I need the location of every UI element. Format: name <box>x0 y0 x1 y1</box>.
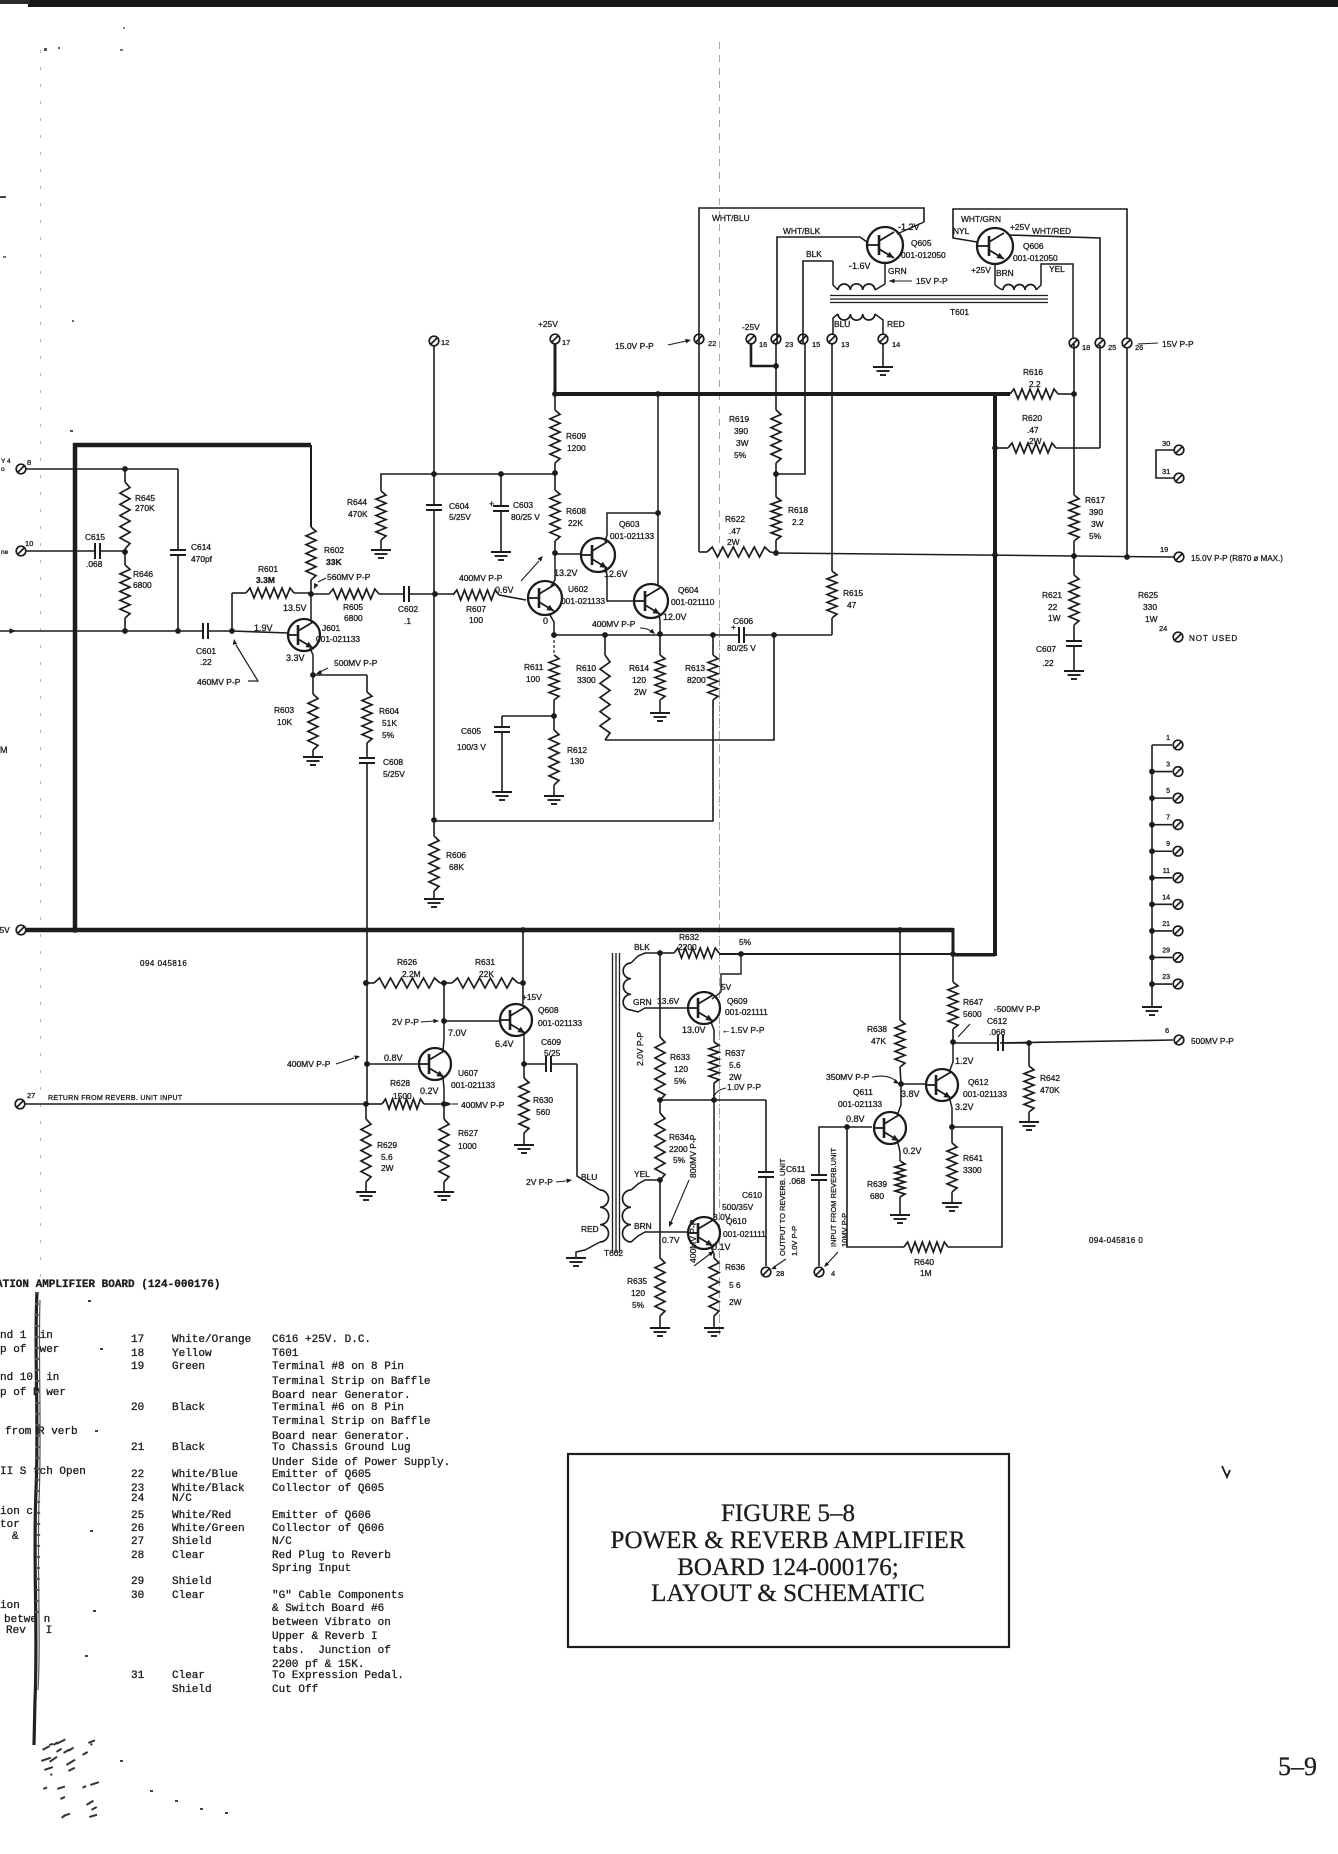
svg-text:001-021133: 001-021133 <box>451 1080 495 1090</box>
svg-text:3300: 3300 <box>963 1165 982 1175</box>
node base tap <box>364 1061 370 1067</box>
svg-text:30: 30 <box>1162 439 1170 448</box>
svg-text:C606: C606 <box>733 616 753 626</box>
svg-text:Clear: Clear <box>172 1670 205 1682</box>
resistor R605 <box>311 593 329 595</box>
wire Q605 emitter <box>884 263 886 284</box>
wire Q607 emitter <box>443 1078 444 1104</box>
svg-text:Collector of Q605: Collector of Q605 <box>272 1483 384 1495</box>
ground T602 primary <box>566 1257 586 1259</box>
ground C607 <box>1064 670 1084 672</box>
ground R629 <box>356 1191 376 1193</box>
svg-text:5%: 5% <box>1089 531 1102 541</box>
svg-text:R632: R632 <box>679 932 699 942</box>
main lower bus (thick) <box>26 928 953 933</box>
svg-text:R631: R631 <box>475 957 495 967</box>
svg-text:5/25V: 5/25V <box>449 512 471 522</box>
svg-text:1500: 1500 <box>393 1091 412 1101</box>
svg-text:R642: R642 <box>1040 1073 1060 1083</box>
transistor Q611 <box>874 1112 906 1144</box>
wire Q602 emitter <box>550 615 554 635</box>
svg-text:R641: R641 <box>963 1153 983 1163</box>
terminal 13 <box>827 334 837 344</box>
ground R639 <box>890 1214 910 1216</box>
label 400MV P-P arrow (R628) <box>447 1102 453 1107</box>
svg-text:14: 14 <box>892 340 900 349</box>
svg-text:.1: .1 <box>404 616 411 626</box>
svg-text:R605: R605 <box>343 602 363 612</box>
resistor R627 <box>443 1104 445 1119</box>
node R645 top <box>122 466 128 472</box>
svg-text:5.6: 5.6 <box>729 1060 741 1070</box>
svg-text:Rev I: Rev I <box>6 1625 52 1637</box>
ground R606 <box>424 898 444 900</box>
svg-text:White/Blue: White/Blue <box>172 1469 238 1481</box>
svg-text:22: 22 <box>1048 602 1058 612</box>
node R628 right/Q607 emitter <box>441 1101 447 1107</box>
svg-text:C611: C611 <box>786 1164 806 1174</box>
svg-text:Q609: Q609 <box>727 996 748 1006</box>
svg-text:5%: 5% <box>674 1076 687 1086</box>
wire Q606 emitter <box>994 264 996 285</box>
capacitor C605 <box>501 716 503 727</box>
resistor R616 (in +25V rail) <box>1010 389 1058 399</box>
svg-text:U602: U602 <box>568 584 588 594</box>
svg-text:R603: R603 <box>274 705 294 715</box>
svg-text:White/Red: White/Red <box>172 1510 231 1522</box>
svg-text:2200: 2200 <box>678 942 697 952</box>
node R609/C603 wire <box>552 470 558 476</box>
svg-text:13.2V: 13.2V <box>554 568 578 578</box>
svg-text:C602: C602 <box>398 604 418 614</box>
svg-text:120: 120 <box>674 1064 688 1074</box>
transistor Q602 <box>528 581 562 615</box>
node R616/18 <box>1071 391 1077 397</box>
svg-text:120: 120 <box>631 1288 645 1298</box>
svg-text:Shield: Shield <box>172 1536 212 1548</box>
terminal 6 output wire <box>1000 1040 1173 1043</box>
svg-text:11: 11 <box>1163 868 1170 875</box>
resistor R646 <box>120 565 130 618</box>
terminal 27 input wire <box>15 1099 25 1109</box>
svg-text:3.3V: 3.3V <box>286 653 305 663</box>
resistor R608 <box>554 473 556 490</box>
wire node up to R601 <box>231 593 233 631</box>
svg-text:T601: T601 <box>272 1348 299 1360</box>
svg-text:094 045816: 094 045816 <box>140 959 187 968</box>
svg-text:100/3 V: 100/3 V <box>457 742 486 752</box>
svg-text:1M: 1M <box>920 1268 932 1278</box>
wire YEL lead <box>631 1180 660 1190</box>
svg-text:C610: C610 <box>742 1190 762 1200</box>
node R613 top <box>710 632 716 638</box>
wire terminal 15 down to R619 node <box>776 344 805 474</box>
T601 primary winding right <box>995 285 1003 290</box>
svg-text:6800: 6800 <box>344 613 363 623</box>
svg-text:C612: C612 <box>987 1016 1007 1026</box>
emitter rail wire <box>554 634 739 636</box>
svg-text:17: 17 <box>562 338 570 347</box>
page fold crease line <box>719 42 721 1335</box>
svg-text:5 6: 5 6 <box>729 1280 741 1290</box>
ground under terminal 14 <box>873 366 893 368</box>
node Q611 base <box>844 1124 850 1130</box>
svg-text:Shield: Shield <box>172 1684 212 1696</box>
resistor R645 <box>120 482 130 549</box>
wire +25V feed (thick) <box>554 344 557 395</box>
svg-text:2V P-P: 2V P-P <box>392 1017 419 1027</box>
node C612/R642 <box>1026 1040 1032 1046</box>
transistor Q605 <box>867 227 903 263</box>
leader to terminal 4 <box>827 1252 838 1264</box>
svg-text:22: 22 <box>131 1469 144 1481</box>
svg-text:C615: C615 <box>85 532 105 542</box>
svg-text:5: 5 <box>1166 788 1170 795</box>
wire Q609 emitter <box>711 1022 714 1042</box>
transistor Q607 <box>419 1048 451 1080</box>
svg-text:nd 1 in: nd 1 in <box>0 1330 53 1342</box>
node output/R617 <box>1071 553 1077 559</box>
wire Q606 base loop to terminal 26 <box>953 209 1127 338</box>
svg-text:500MV P-P: 500MV P-P <box>1191 1036 1234 1046</box>
svg-text:R635: R635 <box>627 1276 647 1286</box>
wire RED lead to ground <box>576 1242 600 1257</box>
svg-text:25: 25 <box>1108 343 1116 352</box>
svg-text:Under Side of Power Supply.: Under Side of Power Supply. <box>272 1457 450 1469</box>
svg-text:21: 21 <box>1162 921 1170 928</box>
svg-text:001-021110: 001-021110 <box>671 597 715 607</box>
wire R613 bottom down-left <box>434 700 713 821</box>
leader to terminal 28 <box>774 1259 786 1267</box>
capacitor C608 <box>359 757 375 759</box>
svg-text:001-012050: 001-012050 <box>1013 253 1058 263</box>
svg-text:Y 4: Y 4 <box>1 458 11 465</box>
ground R636 <box>704 1327 724 1329</box>
ground R635 <box>650 1327 670 1329</box>
svg-text:R627: R627 <box>458 1128 478 1138</box>
capacitor C606 (electrolytic) <box>738 627 740 643</box>
node BLK/R632 <box>657 950 663 956</box>
resistor R631 <box>452 978 518 988</box>
node R633/R634 <box>657 1097 663 1103</box>
svg-text:5.6: 5.6 <box>381 1152 393 1162</box>
svg-text:0.7V: 0.7V <box>662 1235 680 1245</box>
terminal 5 <box>1152 797 1172 799</box>
svg-text:2W: 2W <box>729 1297 742 1307</box>
svg-text:T601: T601 <box>950 307 969 317</box>
svg-text:To Chassis Ground Lug: To Chassis Ground Lug <box>272 1442 411 1454</box>
terminal 12 <box>429 336 439 346</box>
resistor R629 <box>365 1104 367 1119</box>
svg-text:2W: 2W <box>381 1163 394 1173</box>
svg-text:R640: R640 <box>914 1257 934 1267</box>
wire Q606 collector WHT/RED to terminal 25 <box>1009 235 1100 338</box>
svg-text:12.0V: 12.0V <box>663 612 687 622</box>
svg-text:R633: R633 <box>670 1052 690 1062</box>
resistor R622 <box>699 551 707 553</box>
svg-text:Board near Generator.: Board near Generator. <box>272 1390 411 1402</box>
svg-text:2.0V P-P: 2.0V P-P <box>635 1032 645 1066</box>
svg-text:C601: C601 <box>196 646 216 656</box>
svg-text:R618: R618 <box>788 505 808 515</box>
svg-text:400MV P-P: 400MV P-P <box>688 1219 698 1263</box>
svg-text:BOARD 124-000176;: BOARD 124-000176; <box>677 1554 899 1581</box>
capacitor C615 <box>26 550 95 552</box>
capacitor C602 <box>403 586 405 602</box>
svg-text:R611: R611 <box>524 662 544 672</box>
svg-text:R613: R613 <box>685 663 705 673</box>
wire terminal 22 down to R622 <box>698 344 700 552</box>
wire R610 bottom to C606 right <box>605 635 774 740</box>
svg-text:R609: R609 <box>566 431 586 441</box>
node R645/R646/C615 <box>122 549 128 555</box>
svg-text:23: 23 <box>785 340 793 349</box>
svg-text:400MV P-P: 400MV P-P <box>459 573 503 583</box>
svg-text:.47: .47 <box>729 526 741 536</box>
svg-text:001-021111: 001-021111 <box>725 1007 768 1017</box>
svg-text:Black: Black <box>172 1442 205 1454</box>
svg-text:R620: R620 <box>1022 413 1042 423</box>
svg-text:25: 25 <box>131 1510 144 1522</box>
svg-text:WHT/BLU: WHT/BLU <box>712 213 750 223</box>
wire Q603 base <box>555 553 582 555</box>
svg-text:12: 12 <box>441 338 449 347</box>
svg-text:tabs. Junction of: tabs. Junction of <box>272 1645 391 1657</box>
svg-text:001-021133: 001-021133 <box>561 596 605 606</box>
terminal 8 <box>16 464 26 474</box>
terminal 21 <box>1152 930 1172 932</box>
terminal 3 <box>1152 771 1172 773</box>
node bus/17 <box>552 391 558 397</box>
node Q603 collector/Q604 collector line <box>655 510 661 516</box>
svg-text:LAYOUT & SCHEMATIC: LAYOUT & SCHEMATIC <box>651 1580 925 1607</box>
terminal 15 <box>798 334 808 344</box>
svg-text:3300: 3300 <box>577 675 596 685</box>
svg-text:21: 21 <box>131 1442 145 1454</box>
svg-text:30: 30 <box>131 1590 144 1602</box>
svg-text:Terminal Strip on Baffle: Terminal Strip on Baffle <box>272 1376 430 1388</box>
svg-text:5V: 5V <box>721 982 732 992</box>
svg-text:28: 28 <box>131 1550 144 1562</box>
svg-text:9: 9 <box>1166 841 1170 848</box>
T601 primary winding left <box>833 261 838 290</box>
wire Q607 base <box>367 1063 419 1065</box>
svg-text:2.2: 2.2 <box>1029 379 1041 389</box>
svg-text:Emitter of Q605: Emitter of Q605 <box>272 1469 371 1481</box>
svg-text:1W: 1W <box>1048 613 1061 623</box>
resistor R617 <box>1069 495 1079 541</box>
scan speckles top-left <box>44 48 47 51</box>
svg-text:BRN: BRN <box>634 1221 652 1231</box>
svg-text:10K: 10K <box>277 717 292 727</box>
svg-text:YEL: YEL <box>1049 264 1065 274</box>
svg-text:80/25 V: 80/25 V <box>511 512 540 522</box>
svg-text:560MV P-P: 560MV P-P <box>327 572 371 582</box>
terminal 23 <box>1152 983 1172 985</box>
svg-text:19: 19 <box>1160 545 1168 554</box>
svg-text:WHT/RED: WHT/RED <box>1032 226 1071 236</box>
svg-text:+15V: +15V <box>522 992 542 1002</box>
transistor Q604 <box>634 584 668 618</box>
svg-text:RED: RED <box>887 319 905 329</box>
terminal 19 <box>1174 552 1184 562</box>
transistor Q608 <box>500 1004 532 1036</box>
wire terminal 18 down to R616 node <box>1073 344 1075 394</box>
svg-text:5%: 5% <box>739 937 752 947</box>
ground terminal ladder <box>1142 1006 1162 1008</box>
wire R620 to terminal 25 column <box>1099 345 1101 448</box>
svg-text:27: 27 <box>131 1536 144 1548</box>
svg-text:20: 20 <box>131 1402 144 1414</box>
resistor R604 <box>366 675 368 692</box>
svg-text:POWER & REVERB AMPLIFIER: POWER & REVERB AMPLIFIER <box>611 1527 966 1554</box>
wire R626/R631 node down to Q608 base <box>443 983 445 1021</box>
wire GRN lead to Q609 base <box>631 1008 688 1012</box>
svg-text:R604: R604 <box>379 706 399 716</box>
svg-text:p of wer: p of wer <box>0 1344 59 1356</box>
capacitor C611 <box>819 1127 847 1175</box>
svg-text:24: 24 <box>131 1493 145 1505</box>
resistor R637 <box>709 1042 719 1083</box>
wire terminal 12 down <box>433 346 435 505</box>
ground R614 <box>650 712 670 714</box>
svg-text:001-021111: 001-021111 <box>723 1229 766 1239</box>
resistor R635 <box>659 1180 661 1258</box>
svg-text:8200: 8200 <box>687 675 706 685</box>
wire Q611 emitter <box>898 1143 900 1161</box>
resistor R630 <box>523 1064 525 1078</box>
ground R630 <box>514 1144 534 1146</box>
terminal 9 <box>1152 850 1172 852</box>
capacitor C604 <box>426 504 442 506</box>
svg-text:17: 17 <box>131 1334 144 1346</box>
svg-text:4: 4 <box>831 1269 835 1278</box>
svg-text:0: 0 <box>543 616 548 626</box>
svg-text:Terminal #6 on 8 Pin: Terminal #6 on 8 Pin <box>272 1402 404 1414</box>
svg-text:R617: R617 <box>1085 495 1105 505</box>
svg-text:T602: T602 <box>604 1248 623 1258</box>
svg-text:13.5V: 13.5V <box>283 603 307 613</box>
svg-text:2W: 2W <box>729 1072 742 1082</box>
T602 secondary upper winding <box>623 963 631 1010</box>
ground R641 <box>942 1202 962 1204</box>
svg-text:2W: 2W <box>1029 436 1042 446</box>
wire WHT/BLK (term 23 to Q605 base) <box>777 237 867 344</box>
terminal 11 <box>1152 877 1172 879</box>
svg-text:R646: R646 <box>133 569 153 579</box>
node C602/R607/C604 column <box>432 591 438 597</box>
node C601/R601 <box>229 628 235 634</box>
resistor R638 <box>899 930 901 1020</box>
svg-text:2W: 2W <box>634 687 647 697</box>
svg-text:II S tch Open: II S tch Open <box>0 1466 86 1478</box>
svg-text:330: 330 <box>1143 602 1157 612</box>
svg-text:19: 19 <box>131 1361 144 1373</box>
resistor R626 <box>374 978 440 988</box>
svg-text:& Switch Board #6: & Switch Board #6 <box>272 1603 384 1615</box>
node C604 top wire <box>431 471 437 477</box>
resistor R639 <box>895 1161 905 1197</box>
wire Q603 collector <box>605 513 658 542</box>
svg-text:C614: C614 <box>191 542 211 552</box>
svg-text:680: 680 <box>870 1191 884 1201</box>
transistor Q606 <box>977 228 1013 264</box>
T602 primary winding <box>600 1190 609 1242</box>
thick output rail down <box>993 392 997 956</box>
svg-text:p of P wer: p of P wer <box>0 1387 66 1399</box>
svg-text:23: 23 <box>1162 974 1170 981</box>
+25V bus (thick) <box>553 392 1010 396</box>
svg-text:1.9V: 1.9V <box>254 623 273 633</box>
svg-text:Q612: Q612 <box>968 1077 989 1087</box>
svg-text:5–9: 5–9 <box>1278 1752 1317 1781</box>
feedback loop wire left <box>847 1127 904 1247</box>
svg-text:0.8V: 0.8V <box>384 1053 403 1063</box>
svg-text:.22: .22 <box>200 657 212 667</box>
svg-text:390: 390 <box>734 426 748 436</box>
check mark artifact <box>1222 1466 1230 1477</box>
thick board border left <box>73 443 78 931</box>
wire BLK lead <box>631 953 660 963</box>
node bus/Q604 collector <box>655 391 661 397</box>
svg-text:6800: 6800 <box>133 580 152 590</box>
terminal 14 <box>1152 903 1172 905</box>
ground R612 <box>544 795 564 797</box>
svg-text:2200: 2200 <box>669 1144 688 1154</box>
svg-text:5%: 5% <box>673 1155 686 1165</box>
svg-text:R619: R619 <box>729 414 749 424</box>
terminal 26 <box>1122 338 1132 348</box>
svg-text:22K: 22K <box>479 969 494 979</box>
svg-text:R610: R610 <box>576 663 596 673</box>
svg-text:RED: RED <box>581 1224 599 1234</box>
svg-text:R607: R607 <box>466 604 486 614</box>
wire Q601 emitter <box>310 648 313 675</box>
title box <box>568 1454 1009 1647</box>
svg-text:Terminal #8 on 8 Pin: Terminal #8 on 8 Pin <box>272 1361 404 1373</box>
resistor R620 <box>992 445 998 451</box>
svg-text:001-021133: 001-021133 <box>316 634 360 644</box>
terminal 29 <box>1152 956 1172 958</box>
wire Q601 collector <box>310 594 312 622</box>
node C614 bottom <box>175 628 181 634</box>
svg-text:+25V: +25V <box>538 319 558 329</box>
wire BRN lead to Q610 base <box>631 1232 688 1242</box>
resistor R636 <box>709 1258 719 1316</box>
svg-text:100: 100 <box>526 674 540 684</box>
svg-text:3.2V: 3.2V <box>955 1102 974 1112</box>
label 15V P-P arrow at Q605 emitter <box>889 279 895 284</box>
label 15V P-P at terminal 26 <box>1138 343 1158 344</box>
svg-text:400MV P-P: 400MV P-P <box>592 619 636 629</box>
svg-text:nd 10 in: nd 10 in <box>0 1372 59 1384</box>
svg-text:ion: ion <box>0 1600 20 1612</box>
svg-text:.47: .47 <box>1027 425 1039 435</box>
svg-text:800MV P-P: 800MV P-P <box>688 1134 698 1178</box>
svg-text:15.0V P-P (R870 ø MAX.): 15.0V P-P (R870 ø MAX.) <box>1191 554 1283 563</box>
svg-text:R629: R629 <box>377 1140 397 1150</box>
svg-text:29: 29 <box>1162 947 1170 954</box>
svg-text:R630: R630 <box>533 1095 553 1105</box>
svg-text:2.2: 2.2 <box>792 517 804 527</box>
svg-text:15V P-P: 15V P-P <box>1162 339 1194 349</box>
node Q604 emitter <box>657 631 663 637</box>
svg-text:18: 18 <box>131 1348 144 1360</box>
svg-text:0.2V: 0.2V <box>420 1086 439 1096</box>
node bus corner <box>950 951 956 957</box>
svg-text:Clear: Clear <box>172 1590 205 1602</box>
resistor R607 <box>435 593 453 595</box>
